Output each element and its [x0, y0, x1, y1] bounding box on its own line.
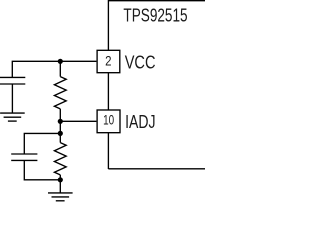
- svg-text:TPS92515: TPS92515: [123, 5, 187, 26]
- svg-text:IADJ: IADJ: [125, 111, 155, 132]
- svg-text:10: 10: [103, 112, 114, 127]
- svg-text:VCC: VCC: [125, 51, 156, 72]
- svg-text:2: 2: [105, 53, 111, 68]
